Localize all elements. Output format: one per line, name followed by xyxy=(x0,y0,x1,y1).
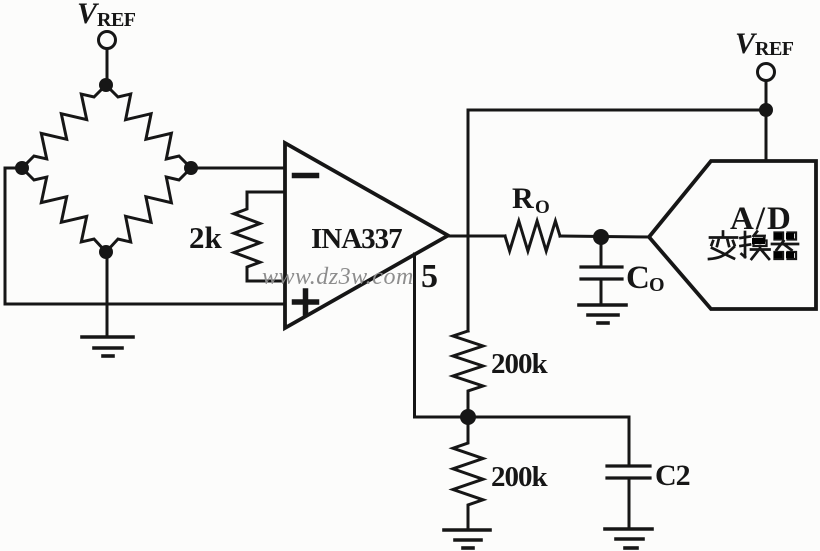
svg-text:200k: 200k xyxy=(491,348,549,380)
node: bridge left xyxy=(15,161,29,175)
wire bridge right node to inverting input xyxy=(191,167,285,170)
svg-text:5: 5 xyxy=(421,258,438,295)
svg-text:R: R xyxy=(512,182,534,215)
wire bridge bottom node to ground xyxy=(106,252,109,337)
op-amp noninverting input sign xyxy=(295,291,317,313)
wire junction down to CO xyxy=(600,237,603,267)
svg-text:O: O xyxy=(649,274,665,296)
wire pin 5 (feedback sense) from op-amp lower edge down to divider tap xyxy=(415,254,469,417)
ground (lower 200k) xyxy=(444,530,490,548)
capacitor CO xyxy=(581,267,622,279)
svg-text:C: C xyxy=(626,260,650,296)
bridge resistor (top-right arm) xyxy=(106,85,191,168)
wire output sense up to VREF rail (long vertical) xyxy=(468,110,766,331)
bridge resistor (top-left arm) xyxy=(22,85,106,168)
op-amp U1 INA337 triangle xyxy=(285,143,448,328)
wire bridge left node to noninverting input (left rail) xyxy=(5,168,285,304)
node: VREF rail junction xyxy=(759,103,773,117)
op-amp inverting input sign xyxy=(295,173,317,179)
resistor RO xyxy=(505,221,560,251)
svg-text:www.dz3w.com: www.dz3w.com xyxy=(262,264,414,290)
svg-text:C2: C2 xyxy=(655,459,690,492)
resistor 200k (lower of divider) xyxy=(453,417,483,529)
svg-text:2k: 2k xyxy=(189,220,223,255)
wire VREF terminal to bridge top node xyxy=(106,49,109,86)
wire VREF terminal to rail node xyxy=(765,81,768,104)
terminal VREF (right, A/D reference) xyxy=(758,64,775,81)
wire RO to A/D input xyxy=(560,236,649,237)
svg-text:REF: REF xyxy=(755,38,794,60)
svg-text:INA337: INA337 xyxy=(311,223,402,255)
svg-text:O: O xyxy=(535,197,550,218)
wire divider tap to C2 xyxy=(468,417,629,466)
A/D converter block xyxy=(649,161,816,309)
node: output/filter junction xyxy=(593,229,609,245)
node: divider tap junction xyxy=(460,409,476,425)
wire op-amp output to RO xyxy=(448,235,505,238)
node: bridge top xyxy=(99,78,113,92)
resistor RG 2k (gain set) with bracket to op-amp pins xyxy=(234,192,285,281)
svg-text:200k: 200k xyxy=(491,461,549,493)
bridge resistor (bottom-right arm) xyxy=(106,168,191,252)
label 变换器 (converter, drawn strokes) xyxy=(709,232,798,260)
node: bridge right xyxy=(184,161,198,175)
terminal VREF (left, bridge excitation) xyxy=(99,32,116,49)
svg-text:REF: REF xyxy=(97,9,136,31)
capacitor C2 xyxy=(607,466,650,478)
wire CO to ground xyxy=(600,279,603,305)
resistor 200k (upper of divider) xyxy=(453,331,483,417)
wire VREF rail down to A/D top xyxy=(765,110,768,161)
ground (CO) xyxy=(579,305,626,323)
node: bridge bottom xyxy=(99,245,113,259)
wire C2 to ground xyxy=(628,478,631,529)
ground (bridge bottom) xyxy=(82,337,133,356)
bridge resistor (bottom-left arm) xyxy=(22,168,106,252)
ground (C2) xyxy=(605,529,652,548)
